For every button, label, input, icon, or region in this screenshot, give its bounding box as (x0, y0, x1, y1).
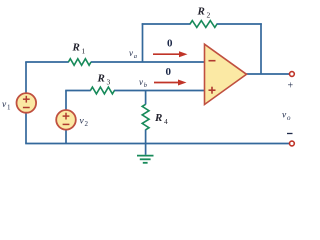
svg-text:2: 2 (207, 11, 211, 20)
resistor R4 (142, 104, 149, 130)
wire: R1 line left segment (25, 61, 69, 63)
svg-text:R: R (97, 73, 105, 85)
svg-text:4: 4 (164, 117, 168, 126)
output terminal bottom (290, 141, 295, 146)
wire: R3 line right segment to op-amp plus input (114, 90, 205, 92)
wire: ground stub (145, 144, 147, 155)
output terminal top (290, 72, 295, 77)
op-amp U1 (205, 44, 247, 104)
svg-text:2: 2 (85, 120, 89, 128)
ground (137, 155, 154, 157)
svg-text:0: 0 (167, 38, 173, 50)
wire: v2 branch vertical (65, 91, 67, 144)
svg-text:R: R (154, 112, 162, 124)
wire: R3 line left segment (65, 90, 91, 92)
svg-text:v: v (139, 77, 143, 87)
source v2 (56, 110, 76, 130)
wire: R4 branch upper (145, 91, 147, 105)
wire: op-amp output line (246, 73, 289, 75)
wire: bottom rail (25, 143, 289, 145)
svg-text:a: a (134, 53, 137, 60)
svg-text:1: 1 (82, 47, 86, 56)
resistor R3 (90, 87, 114, 94)
svg-text:R: R (72, 42, 80, 54)
svg-text:0: 0 (166, 66, 172, 78)
svg-text:1: 1 (7, 104, 11, 112)
resistor R1 (68, 59, 91, 66)
svg-text:+: + (288, 81, 294, 92)
wire: v1 branch vertical (25, 62, 27, 144)
svg-text:R: R (197, 6, 205, 18)
current arrow 0 at minus input (153, 53, 181, 55)
resistor R2 (190, 21, 217, 28)
current arrow 0 at plus input (154, 82, 180, 84)
op-amp plus pin mark (209, 89, 216, 91)
wire: R4 branch lower (145, 130, 147, 145)
wire: feedback vertical at node a (142, 23, 144, 62)
op-amp minus pin mark (209, 60, 216, 62)
wire: top feedback line left of R2 (142, 23, 191, 25)
svg-text:3: 3 (107, 78, 111, 87)
wire: feedback vertical down to output (260, 23, 262, 74)
wire: R1 line right segment to op-amp minus input (91, 61, 205, 63)
svg-text:v: v (129, 48, 133, 58)
svg-text:o: o (287, 114, 291, 122)
source v1 (17, 93, 37, 113)
output minus sign (287, 133, 293, 135)
wire: top feedback line right of R2 (217, 23, 262, 25)
